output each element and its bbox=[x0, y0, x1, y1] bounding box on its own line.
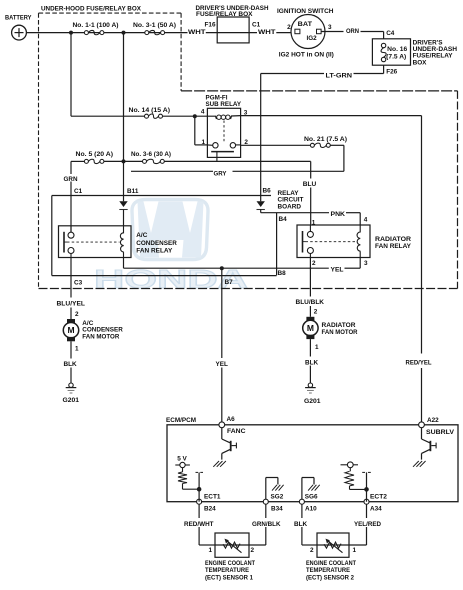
svg-text:SUB RELAY: SUB RELAY bbox=[206, 101, 242, 108]
svg-text:C1: C1 bbox=[74, 188, 83, 195]
svg-text:WHT: WHT bbox=[258, 29, 276, 36]
svg-text:A/C: A/C bbox=[136, 232, 147, 239]
svg-text:No. 5 (20 A): No. 5 (20 A) bbox=[76, 151, 114, 158]
svg-text:2: 2 bbox=[310, 547, 314, 554]
svg-text:B7: B7 bbox=[225, 279, 234, 286]
svg-text:WHT: WHT bbox=[188, 29, 206, 36]
svg-text:F16: F16 bbox=[205, 22, 216, 29]
svg-text:FANC: FANC bbox=[227, 428, 246, 435]
svg-text:ECT2: ECT2 bbox=[370, 494, 387, 501]
svg-text:CONDENSER: CONDENSER bbox=[136, 240, 177, 247]
svg-text:ECM/PCM: ECM/PCM bbox=[166, 417, 196, 424]
svg-text:2: 2 bbox=[312, 260, 316, 267]
svg-text:1: 1 bbox=[312, 219, 316, 226]
svg-text:BLU/BLK: BLU/BLK bbox=[296, 299, 325, 306]
svg-text:2: 2 bbox=[244, 139, 248, 146]
svg-text:1: 1 bbox=[315, 344, 319, 351]
svg-text:YEL: YEL bbox=[331, 266, 344, 273]
svg-text:A22: A22 bbox=[427, 417, 439, 424]
svg-text:3: 3 bbox=[364, 260, 368, 267]
svg-text:No. 3-1 (50 A): No. 3-1 (50 A) bbox=[133, 22, 176, 29]
svg-text:B24: B24 bbox=[204, 505, 216, 512]
svg-text:RADIATOR: RADIATOR bbox=[375, 236, 411, 243]
svg-text:4: 4 bbox=[201, 109, 205, 116]
svg-text:B6: B6 bbox=[263, 187, 272, 194]
svg-text:B8: B8 bbox=[278, 270, 287, 277]
svg-text:IG2: IG2 bbox=[307, 35, 318, 42]
svg-text:BLU/YEL: BLU/YEL bbox=[57, 301, 86, 308]
svg-text:A10: A10 bbox=[305, 505, 317, 512]
svg-text:FAN MOTOR: FAN MOTOR bbox=[322, 329, 358, 336]
svg-text:BOARD: BOARD bbox=[278, 203, 302, 210]
svg-text:BLK: BLK bbox=[64, 361, 78, 368]
svg-text:ENGINE COOLANT: ENGINE COOLANT bbox=[205, 560, 255, 567]
svg-text:G201: G201 bbox=[63, 397, 80, 404]
svg-text:YEL: YEL bbox=[216, 361, 229, 368]
svg-text:1: 1 bbox=[208, 547, 212, 554]
svg-text:IGNITION SWITCH: IGNITION SWITCH bbox=[277, 8, 334, 15]
svg-text:SG2: SG2 bbox=[271, 494, 284, 501]
svg-text:FAN RELAY: FAN RELAY bbox=[136, 247, 173, 254]
svg-text:UNDER-HOOD FUSE/RELAY BOX: UNDER-HOOD FUSE/RELAY BOX bbox=[41, 5, 142, 12]
svg-text:5 V: 5 V bbox=[177, 456, 187, 463]
svg-text:GRN: GRN bbox=[64, 176, 78, 183]
svg-text:PNK: PNK bbox=[331, 211, 346, 218]
svg-text:RADIATOR: RADIATOR bbox=[322, 322, 356, 329]
svg-text:2: 2 bbox=[75, 311, 79, 318]
svg-text:2: 2 bbox=[251, 547, 255, 554]
svg-text:B34: B34 bbox=[271, 505, 283, 512]
svg-text:ECT1: ECT1 bbox=[204, 493, 221, 500]
svg-text:ENGINE COOLANT: ENGINE COOLANT bbox=[306, 560, 356, 567]
svg-text:LT-GRN: LT-GRN bbox=[326, 73, 353, 80]
svg-text:(ECT) SENSOR 1: (ECT) SENSOR 1 bbox=[205, 575, 253, 582]
svg-text:No. 3-6 (30 A): No. 3-6 (30 A) bbox=[131, 151, 171, 158]
svg-text:No. 16: No. 16 bbox=[387, 46, 407, 53]
svg-text:GRY: GRY bbox=[214, 171, 228, 178]
svg-text:G201: G201 bbox=[304, 398, 321, 405]
svg-text:C3: C3 bbox=[74, 279, 83, 286]
svg-text:BLK: BLK bbox=[305, 359, 319, 366]
svg-text:A34: A34 bbox=[370, 506, 382, 513]
svg-text:C1: C1 bbox=[252, 22, 261, 29]
svg-text:A6: A6 bbox=[227, 416, 236, 423]
svg-text:No. 21 (7.5 A): No. 21 (7.5 A) bbox=[304, 136, 347, 143]
svg-text:No. 14 (15 A): No. 14 (15 A) bbox=[129, 107, 171, 114]
svg-text:GRN/BLK: GRN/BLK bbox=[252, 521, 281, 528]
svg-text:1: 1 bbox=[75, 345, 79, 352]
svg-text:IG2 HOT in ON (II): IG2 HOT in ON (II) bbox=[279, 51, 334, 58]
svg-text:(ECT) SENSOR 2: (ECT) SENSOR 2 bbox=[306, 575, 354, 582]
svg-text:RED/WHT: RED/WHT bbox=[184, 521, 214, 528]
svg-text:F26: F26 bbox=[386, 69, 397, 76]
svg-text:1: 1 bbox=[353, 547, 357, 554]
svg-text:1: 1 bbox=[201, 139, 205, 146]
svg-text:C4: C4 bbox=[386, 30, 395, 37]
svg-text:4: 4 bbox=[364, 216, 368, 223]
svg-text:BOX: BOX bbox=[413, 59, 428, 66]
svg-text:TEMPERATURE: TEMPERATURE bbox=[205, 567, 250, 574]
svg-text:3: 3 bbox=[328, 24, 332, 31]
svg-text:BAT: BAT bbox=[298, 21, 312, 28]
svg-text:YEL/RED: YEL/RED bbox=[354, 521, 381, 528]
svg-text:FUSE/RELAY BOX: FUSE/RELAY BOX bbox=[196, 11, 253, 18]
svg-text:B4: B4 bbox=[279, 216, 288, 223]
svg-text:SG6: SG6 bbox=[305, 494, 318, 501]
svg-text:TEMPERATURE: TEMPERATURE bbox=[306, 567, 351, 574]
svg-text:FAN RELAY: FAN RELAY bbox=[375, 243, 412, 250]
svg-text:2: 2 bbox=[287, 24, 291, 31]
svg-text:SUBRLV: SUBRLV bbox=[426, 429, 455, 436]
svg-text:B11: B11 bbox=[127, 188, 139, 195]
svg-text:BLU: BLU bbox=[303, 181, 317, 188]
svg-text:M: M bbox=[307, 323, 314, 333]
svg-text:FAN MOTOR: FAN MOTOR bbox=[82, 333, 119, 340]
svg-text:BATTERY: BATTERY bbox=[5, 14, 32, 21]
svg-text:RED/YEL: RED/YEL bbox=[406, 359, 432, 366]
svg-text:M: M bbox=[67, 325, 74, 335]
svg-text:ORN: ORN bbox=[346, 28, 359, 35]
svg-text:No. 1-1 (100 A): No. 1-1 (100 A) bbox=[73, 22, 119, 29]
svg-text:2: 2 bbox=[314, 308, 318, 315]
svg-text:CIRCUIT: CIRCUIT bbox=[278, 196, 304, 203]
svg-text:(7.5 A): (7.5 A) bbox=[386, 53, 406, 60]
svg-text:BLK: BLK bbox=[294, 521, 308, 528]
svg-text:3: 3 bbox=[244, 109, 248, 116]
